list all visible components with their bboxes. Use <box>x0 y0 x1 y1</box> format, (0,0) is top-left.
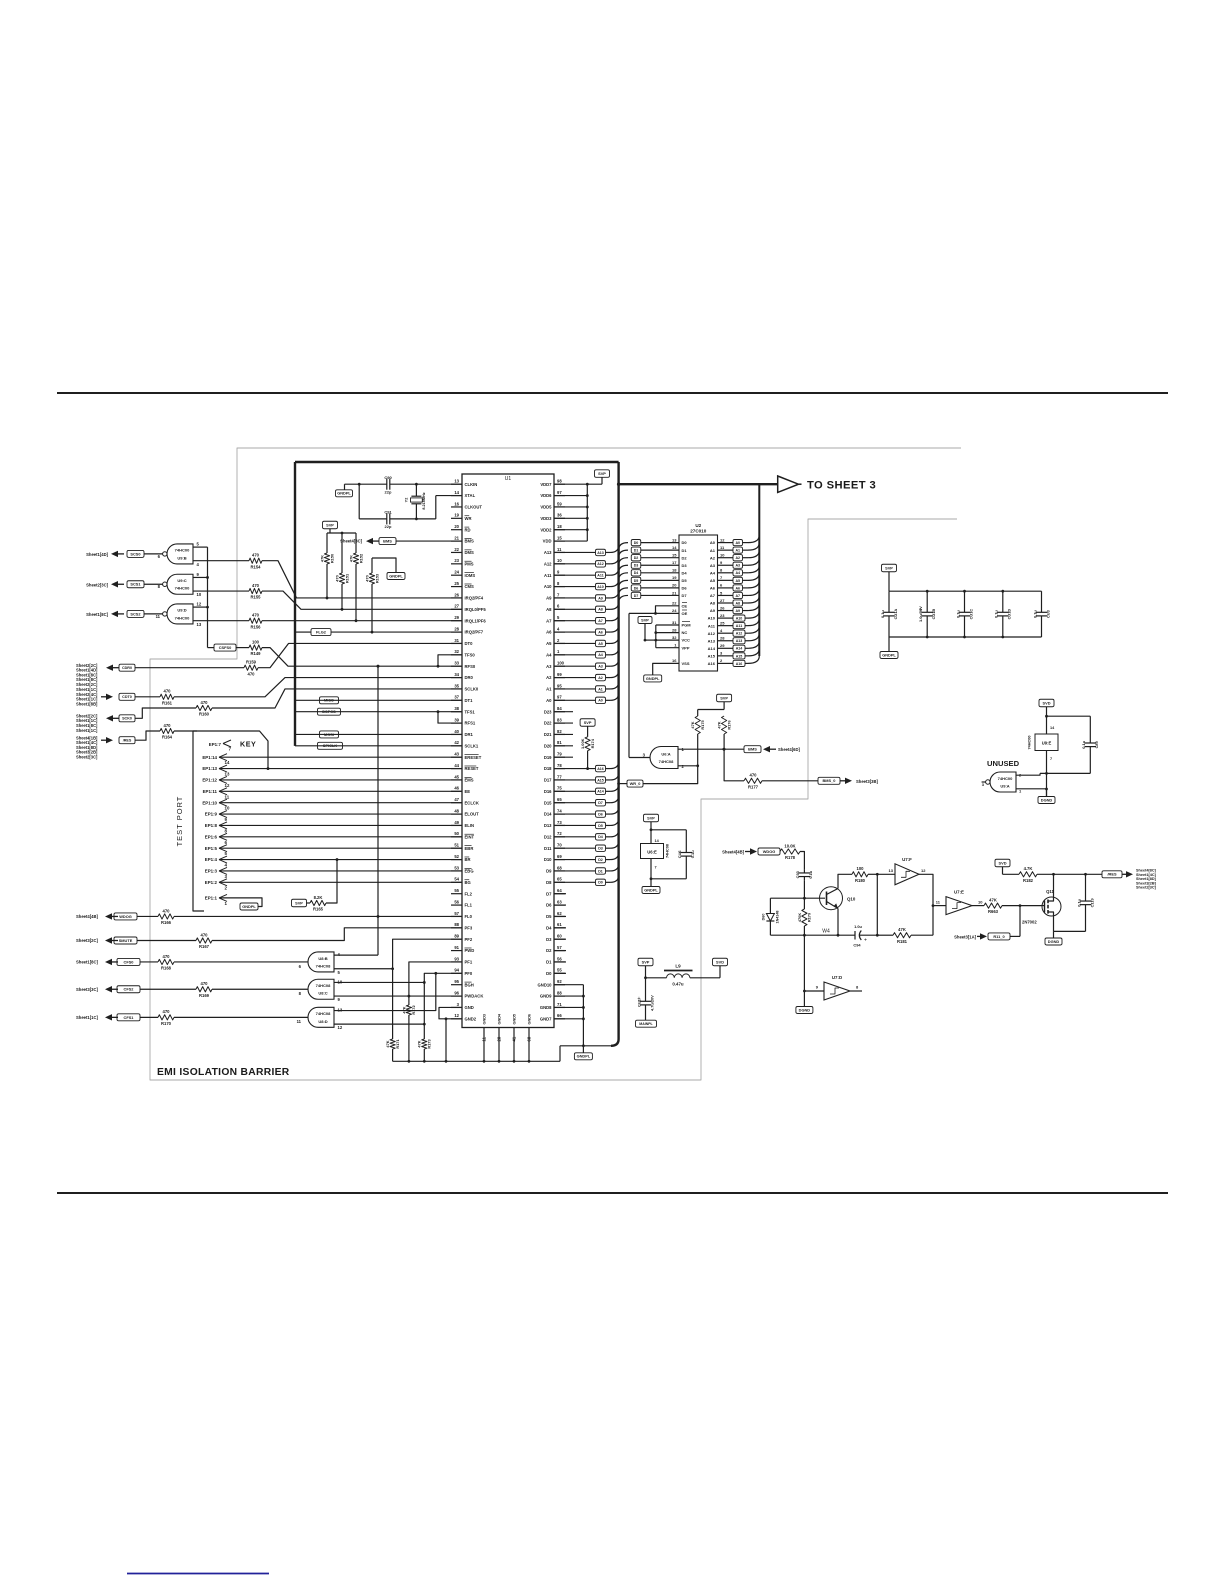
svg-text:18: 18 <box>557 524 562 529</box>
AND gate U6:A <box>650 747 678 769</box>
svg-text:D60: D60 <box>762 914 766 921</box>
svg-text:VDD5: VDD5 <box>540 505 552 510</box>
svg-text:VDD2: VDD2 <box>540 527 552 532</box>
svg-text:IOMS: IOMS <box>465 573 476 578</box>
svg-text:PWD: PWD <box>465 948 475 953</box>
svg-text:68: 68 <box>557 865 562 870</box>
svg-text:29: 29 <box>720 643 725 648</box>
GND rail bottom <box>560 1045 611 1047</box>
svg-text:11: 11 <box>156 614 161 619</box>
svg-text:35: 35 <box>454 683 459 688</box>
svg-text:470: 470 <box>252 583 260 588</box>
svg-text:FL0: FL0 <box>465 914 473 919</box>
resistor R180 <box>852 872 868 877</box>
svg-text:A6: A6 <box>710 586 716 591</box>
svg-text:A5: A5 <box>710 578 716 583</box>
svg-text:SVP: SVP <box>295 900 303 905</box>
svg-text:12: 12 <box>225 783 230 788</box>
capacitor CU1C <box>964 591 966 612</box>
svg-text:SVP: SVP <box>642 959 650 964</box>
svg-text:PGM: PGM <box>682 623 692 628</box>
svg-text:10: 10 <box>225 806 230 811</box>
svg-text:WR: WR <box>465 516 472 521</box>
svg-text:GND4: GND4 <box>498 1013 502 1024</box>
svg-text:CFS1: CFS1 <box>124 1015 135 1020</box>
svg-text:A3: A3 <box>710 563 716 568</box>
svg-text:A4: A4 <box>598 653 603 657</box>
svg-text:RFS0: RFS0 <box>465 664 476 669</box>
svg-text:72: 72 <box>557 831 562 836</box>
svg-text:28: 28 <box>454 626 459 631</box>
svg-text:27: 27 <box>454 604 459 609</box>
U6:A pin1 BMS wire <box>678 748 744 750</box>
svg-text:74HC08: 74HC08 <box>659 759 674 764</box>
svg-text:Y2: Y2 <box>405 498 409 503</box>
resistor R170 <box>158 1015 174 1020</box>
svg-text:R169: R169 <box>199 993 210 998</box>
svg-text:EP1:2: EP1:2 <box>205 880 218 885</box>
svg-text:25: 25 <box>454 581 459 586</box>
svg-text:PMS: PMS <box>465 561 474 566</box>
svg-text:88: 88 <box>454 922 459 927</box>
svg-text:Sheet1[1C]: Sheet1[1C] <box>76 1015 98 1020</box>
svg-text:Q10: Q10 <box>847 897 856 902</box>
svg-text:A10: A10 <box>597 585 604 589</box>
svg-text:79: 79 <box>557 752 562 757</box>
svg-text:95: 95 <box>454 979 459 984</box>
capacitor CU6 <box>685 830 687 853</box>
svg-text:A13: A13 <box>708 638 716 643</box>
svg-text:GND5: GND5 <box>513 1014 517 1025</box>
svg-text:54: 54 <box>454 877 459 882</box>
svg-text:32: 32 <box>454 649 459 654</box>
svg-text:A1: A1 <box>735 549 740 553</box>
resistor R149 <box>249 645 262 650</box>
svg-text:/RES: /RES <box>123 739 132 743</box>
svg-text:U6:E: U6:E <box>647 850 657 855</box>
svg-text:D1: D1 <box>634 549 639 553</box>
svg-text:11: 11 <box>297 1019 302 1024</box>
svg-text:A16: A16 <box>597 767 604 771</box>
svg-text:BMS: BMS <box>383 538 392 543</box>
svg-text:A2: A2 <box>710 555 716 560</box>
svg-text:83: 83 <box>557 717 562 722</box>
svg-text:D2: D2 <box>546 948 552 953</box>
svg-text:W4: W4 <box>822 929 830 935</box>
svg-text:470: 470 <box>163 1009 171 1014</box>
svg-text:47K: 47K <box>385 1040 390 1047</box>
svg-text:R154: R154 <box>250 564 261 569</box>
svg-text:A6: A6 <box>546 630 552 635</box>
svg-text:R181: R181 <box>897 939 908 944</box>
svg-text:CDT0: CDT0 <box>122 695 132 699</box>
svg-text:ELIN: ELIN <box>465 823 475 828</box>
svg-text:D1: D1 <box>546 960 552 965</box>
svg-text:15: 15 <box>672 553 677 558</box>
svg-text:19: 19 <box>672 575 677 580</box>
svg-text:Sheet2[3C]: Sheet2[3C] <box>1136 886 1157 890</box>
resistor R176 <box>722 716 727 734</box>
svg-text:470: 470 <box>164 689 172 694</box>
svg-text:FL1: FL1 <box>465 903 473 908</box>
to sheet 3 arrow <box>778 476 799 492</box>
svg-text:100: 100 <box>857 866 865 871</box>
svg-text:42: 42 <box>454 740 459 745</box>
svg-text:99: 99 <box>557 672 562 677</box>
svg-text:91: 91 <box>454 945 459 950</box>
svg-text:C89: C89 <box>1094 740 1099 748</box>
svg-text:14: 14 <box>672 545 677 550</box>
capacitor C91 <box>358 484 360 519</box>
svg-text:C91: C91 <box>384 510 392 515</box>
bus EPROM address vertical <box>758 484 760 656</box>
svg-text:DGND: DGND <box>799 1007 811 1012</box>
svg-text:R170: R170 <box>161 1021 172 1026</box>
svg-text:Sheet4[4B]: Sheet4[4B] <box>76 914 98 919</box>
net SVD watchdog <box>995 859 1010 867</box>
svg-text:WDOG: WDOG <box>119 914 132 919</box>
svg-text:470: 470 <box>201 981 209 986</box>
svg-text:A4: A4 <box>735 571 740 575</box>
svg-text:470: 470 <box>201 932 209 937</box>
svg-text:BG: BG <box>465 880 471 885</box>
svg-text:GND7: GND7 <box>540 1016 552 1021</box>
svg-text:37: 37 <box>454 695 459 700</box>
svg-text:A0: A0 <box>710 540 716 545</box>
svg-text:4.7u/20V: 4.7u/20V <box>649 995 654 1011</box>
svg-text:47K: 47K <box>690 721 695 728</box>
resistor R156 <box>249 618 262 623</box>
svg-text:34: 34 <box>454 672 459 677</box>
svg-text:A7: A7 <box>710 593 716 598</box>
U6:A pin2 wire <box>678 765 698 767</box>
net SVP L9 <box>638 958 653 966</box>
svg-text:CDR0: CDR0 <box>122 666 132 670</box>
svg-text:22: 22 <box>672 601 677 606</box>
svg-text:31: 31 <box>454 638 459 643</box>
svg-text:56: 56 <box>557 956 562 961</box>
svg-text:EP1:7: EP1:7 <box>209 742 222 747</box>
svg-text:A10: A10 <box>708 616 716 621</box>
svg-text:A14: A14 <box>736 647 743 651</box>
svg-text:0.47u: 0.47u <box>672 982 684 987</box>
svg-text:A15: A15 <box>708 653 716 658</box>
svg-text:D23: D23 <box>544 709 552 714</box>
svg-text:SVP: SVP <box>326 522 334 527</box>
svg-text:470: 470 <box>252 553 260 558</box>
svg-text:Sheet1[8C]: Sheet1[8C] <box>86 612 108 617</box>
svg-text:A3: A3 <box>546 664 552 669</box>
svg-text:PF3: PF3 <box>465 925 473 930</box>
svg-text:74HC00: 74HC00 <box>1028 736 1032 750</box>
svg-text:D7: D7 <box>634 594 639 598</box>
wire PF1 to R172 <box>409 962 462 1005</box>
svg-text:SVD: SVD <box>1043 700 1051 705</box>
resistor R175 <box>697 710 699 717</box>
NAND gate U9:A <box>990 772 1016 792</box>
svg-text:Sheet2[3C]: Sheet2[3C] <box>86 582 108 587</box>
svg-text:D12: D12 <box>544 834 552 839</box>
U1 data bus labels A16-D0 <box>554 768 596 770</box>
svg-text:D22: D22 <box>544 721 552 726</box>
net SVP pullups <box>323 521 338 529</box>
AND gate U8:B <box>308 952 334 972</box>
svg-text:GNDPL: GNDPL <box>646 676 660 681</box>
svg-text:A8: A8 <box>735 601 740 605</box>
svg-text:C94: C94 <box>853 943 861 948</box>
wire R149 cross to RFS0 <box>262 648 462 667</box>
svg-text:20: 20 <box>454 524 459 529</box>
net DGND U9A <box>1038 797 1055 804</box>
bus to sheet 3 <box>619 483 778 485</box>
WDOG vertical <box>377 666 379 955</box>
svg-text:8.218MHz: 8.218MHz <box>422 492 426 509</box>
svg-text:74HC08: 74HC08 <box>316 983 331 988</box>
svg-text:TFS0: TFS0 <box>465 652 476 657</box>
net WR_0 <box>617 782 620 785</box>
svg-text:D7: D7 <box>546 891 552 896</box>
svg-text:81: 81 <box>557 740 562 745</box>
svg-text:R161: R161 <box>162 700 173 705</box>
svg-text:PWDACK: PWDACK <box>465 994 484 999</box>
svg-text:14: 14 <box>225 760 230 765</box>
svg-text:A2: A2 <box>546 675 552 680</box>
net CSFS0 <box>214 644 236 651</box>
inductor L9 <box>646 977 667 979</box>
U8:B pin5 wire to R171 vertical <box>334 968 393 970</box>
svg-text:40: 40 <box>454 729 459 734</box>
svg-text:Sheet4[6D]: Sheet4[6D] <box>778 747 800 752</box>
svg-text:73: 73 <box>557 820 562 825</box>
svg-text:68: 68 <box>527 1036 532 1041</box>
svg-text:A5: A5 <box>546 641 552 646</box>
svg-text:EP1:12: EP1:12 <box>202 778 217 783</box>
svg-text:A4: A4 <box>710 570 716 575</box>
resistor R169 <box>196 987 212 992</box>
svg-text:R164: R164 <box>162 735 173 740</box>
svg-text:70: 70 <box>557 843 562 848</box>
svg-text:52: 52 <box>454 854 459 859</box>
net SVP cap bank <box>882 564 897 572</box>
svg-text:75: 75 <box>557 786 562 791</box>
svg-text:16: 16 <box>454 501 459 506</box>
svg-text:FLG2: FLG2 <box>316 629 327 634</box>
svg-text:CLKIN: CLKIN <box>465 482 478 487</box>
wire PF0 to R173 <box>424 973 462 1039</box>
svg-text:45: 45 <box>454 774 459 779</box>
net SVD U9E <box>1039 699 1054 707</box>
svg-text:48: 48 <box>454 808 459 813</box>
svg-text:A9: A9 <box>735 609 740 613</box>
TEST PORT bracket <box>193 731 204 911</box>
resistor R178 <box>780 849 800 854</box>
net GNDPL crystal <box>344 484 346 490</box>
svg-text:10.0K: 10.0K <box>784 843 795 848</box>
svg-text:CU1A: CU1A <box>893 609 898 620</box>
svg-text:60: 60 <box>557 934 562 939</box>
svg-text:XTAL: XTAL <box>465 493 476 498</box>
svg-text:13: 13 <box>672 537 677 542</box>
resistor R150 <box>326 533 328 553</box>
svg-text:28: 28 <box>672 627 677 632</box>
svg-text:13: 13 <box>225 772 230 777</box>
svg-text:47: 47 <box>454 797 459 802</box>
wire R161 to DR0 <box>174 678 462 697</box>
svg-text:A11: A11 <box>736 624 742 628</box>
svg-text:D6: D6 <box>634 586 639 590</box>
svg-text:A2: A2 <box>598 676 603 680</box>
svg-text:D14: D14 <box>544 812 552 817</box>
svg-text:100: 100 <box>557 661 565 666</box>
svg-text:U7:D: U7:D <box>832 975 842 980</box>
wire U9:B in <box>193 546 208 548</box>
page top rule <box>57 392 1168 394</box>
svg-text:R182: R182 <box>1023 878 1034 883</box>
svg-text:EBG: EBG <box>465 869 474 874</box>
svg-text:A13: A13 <box>544 550 552 555</box>
svg-text:D1: D1 <box>598 869 603 873</box>
resistor R160 <box>196 705 212 710</box>
svg-text:U9:E: U9:E <box>1042 741 1052 746</box>
svg-text:470: 470 <box>201 700 209 705</box>
svg-text:0.1u: 0.1u <box>808 870 813 878</box>
svg-text:95: 95 <box>557 683 562 688</box>
wire base rail <box>770 897 825 899</box>
svg-text:A8: A8 <box>710 601 716 606</box>
net GNDPL EP1:1 <box>240 903 258 910</box>
svg-text:Sheet3[2C]: Sheet3[2C] <box>76 938 98 943</box>
svg-text:D5: D5 <box>598 824 603 828</box>
svg-text:R176: R176 <box>726 720 731 730</box>
gate common vertical <box>207 547 209 648</box>
svg-text:R663: R663 <box>988 909 999 914</box>
svg-text:17: 17 <box>672 560 677 565</box>
svg-text:U6:A: U6:A <box>661 751 670 756</box>
svg-text:SCK0: SCK0 <box>122 717 132 721</box>
svg-text:A8: A8 <box>598 608 603 612</box>
svg-text:55: 55 <box>454 888 459 893</box>
svg-text:49: 49 <box>454 820 459 825</box>
NAND gate U9:D <box>167 604 193 624</box>
svg-text:21: 21 <box>454 535 459 540</box>
svg-text:16: 16 <box>672 658 677 663</box>
svg-text:ECLCK: ECLCK <box>465 800 479 805</box>
svg-text:VPP: VPP <box>682 645 690 650</box>
svg-text:23: 23 <box>454 558 459 563</box>
svg-text:470: 470 <box>364 575 369 582</box>
svg-text:U9:A: U9:A <box>1000 783 1009 788</box>
svg-text:59: 59 <box>557 501 562 506</box>
capacitor CU1D <box>1002 591 1004 612</box>
svg-text:VDD: VDD <box>543 539 552 544</box>
bus top edge <box>295 461 619 463</box>
svg-text:R172: R172 <box>411 1005 416 1015</box>
svg-text:8.2K: 8.2K <box>314 895 323 900</box>
svg-text:A12: A12 <box>597 562 604 566</box>
svg-text:DR0: DR0 <box>465 675 474 680</box>
svg-text:A10: A10 <box>736 617 743 621</box>
svg-text:Sheet3[3B]: Sheet3[3B] <box>856 779 878 784</box>
svg-text:SCS2: SCS2 <box>130 611 141 616</box>
svg-text:A12: A12 <box>544 561 552 566</box>
svg-text:RESET: RESET <box>465 766 479 771</box>
svg-text:UNUSED: UNUSED <box>987 759 1020 768</box>
svg-text:R165: R165 <box>313 907 324 912</box>
wire R155 to IRQL0/PF5 <box>262 591 462 609</box>
net SVP U2 <box>638 617 652 624</box>
svg-text:69: 69 <box>557 854 562 859</box>
svg-text:ELOUT: ELOUT <box>465 812 480 817</box>
svg-text:12: 12 <box>720 537 725 542</box>
net MAINPL <box>636 1020 657 1027</box>
svg-text:92: 92 <box>557 979 562 984</box>
svg-text:R167: R167 <box>199 944 210 949</box>
Q10 collector wire <box>838 874 852 888</box>
svg-text:DSPCS: DSPCS <box>322 709 336 714</box>
svg-text:R159: R159 <box>246 660 257 665</box>
net DGND U7D <box>796 1007 813 1014</box>
svg-text:55: 55 <box>557 968 562 973</box>
svg-text:56: 56 <box>454 899 459 904</box>
bus left vertical <box>294 462 296 746</box>
svg-text:PF2: PF2 <box>465 937 473 942</box>
svg-text:VDD6: VDD6 <box>540 493 552 498</box>
svg-text:96: 96 <box>454 990 459 995</box>
wire OE to U6A out <box>628 613 630 757</box>
capacitor CU1 <box>645 986 647 1001</box>
svg-text:SMUTE: SMUTE <box>119 938 133 943</box>
svg-text:Sheet3[3C]: Sheet3[3C] <box>76 987 98 992</box>
svg-text:GND9: GND9 <box>540 994 552 999</box>
svg-text:GNDPL: GNDPL <box>242 904 256 909</box>
U1 bottom GND pins <box>483 1028 485 1062</box>
svg-text:66: 66 <box>557 1013 562 1018</box>
svg-text:7: 7 <box>1050 757 1052 761</box>
svg-text:47K: 47K <box>401 1006 406 1013</box>
svg-text:D2: D2 <box>634 556 639 560</box>
cap bank rails <box>889 590 1042 592</box>
svg-text:WR_0: WR_0 <box>630 781 641 786</box>
svg-text:PF0: PF0 <box>465 971 473 976</box>
svg-text:22p: 22p <box>385 524 392 529</box>
svg-text:GNDPL: GNDPL <box>577 1054 591 1059</box>
U1 GND right pins <box>554 984 583 986</box>
svg-text:SCLK1: SCLK1 <box>465 743 479 748</box>
svg-text:A11: A11 <box>544 573 552 578</box>
svg-text:NC: NC <box>682 630 688 635</box>
svg-text:32: 32 <box>672 635 677 640</box>
svg-text:2N7002: 2N7002 <box>1022 920 1037 925</box>
svg-text:A0: A0 <box>546 698 552 703</box>
svg-text:CU1B: CU1B <box>931 609 936 620</box>
svg-text:84: 84 <box>557 706 562 711</box>
svg-text:+: + <box>919 607 922 613</box>
resistor R153 <box>371 558 373 573</box>
svg-text:D21: D21 <box>544 732 552 737</box>
svg-text:GND6: GND6 <box>528 1014 532 1025</box>
svg-text:C93: C93 <box>795 870 800 878</box>
svg-text:CU1D: CU1D <box>1007 609 1012 620</box>
svg-text:L9: L9 <box>675 964 681 969</box>
svg-text:D8: D8 <box>546 880 552 885</box>
svg-text:D16: D16 <box>544 789 552 794</box>
net GNDPL bottom <box>574 1053 592 1060</box>
svg-text:53: 53 <box>454 865 459 870</box>
svg-text:Sheet1[8B]: Sheet1[8B] <box>76 702 98 707</box>
svg-text:BR: BR <box>465 857 471 862</box>
svg-text:U7:E: U7:E <box>954 890 964 895</box>
svg-text:R149: R149 <box>250 651 261 656</box>
